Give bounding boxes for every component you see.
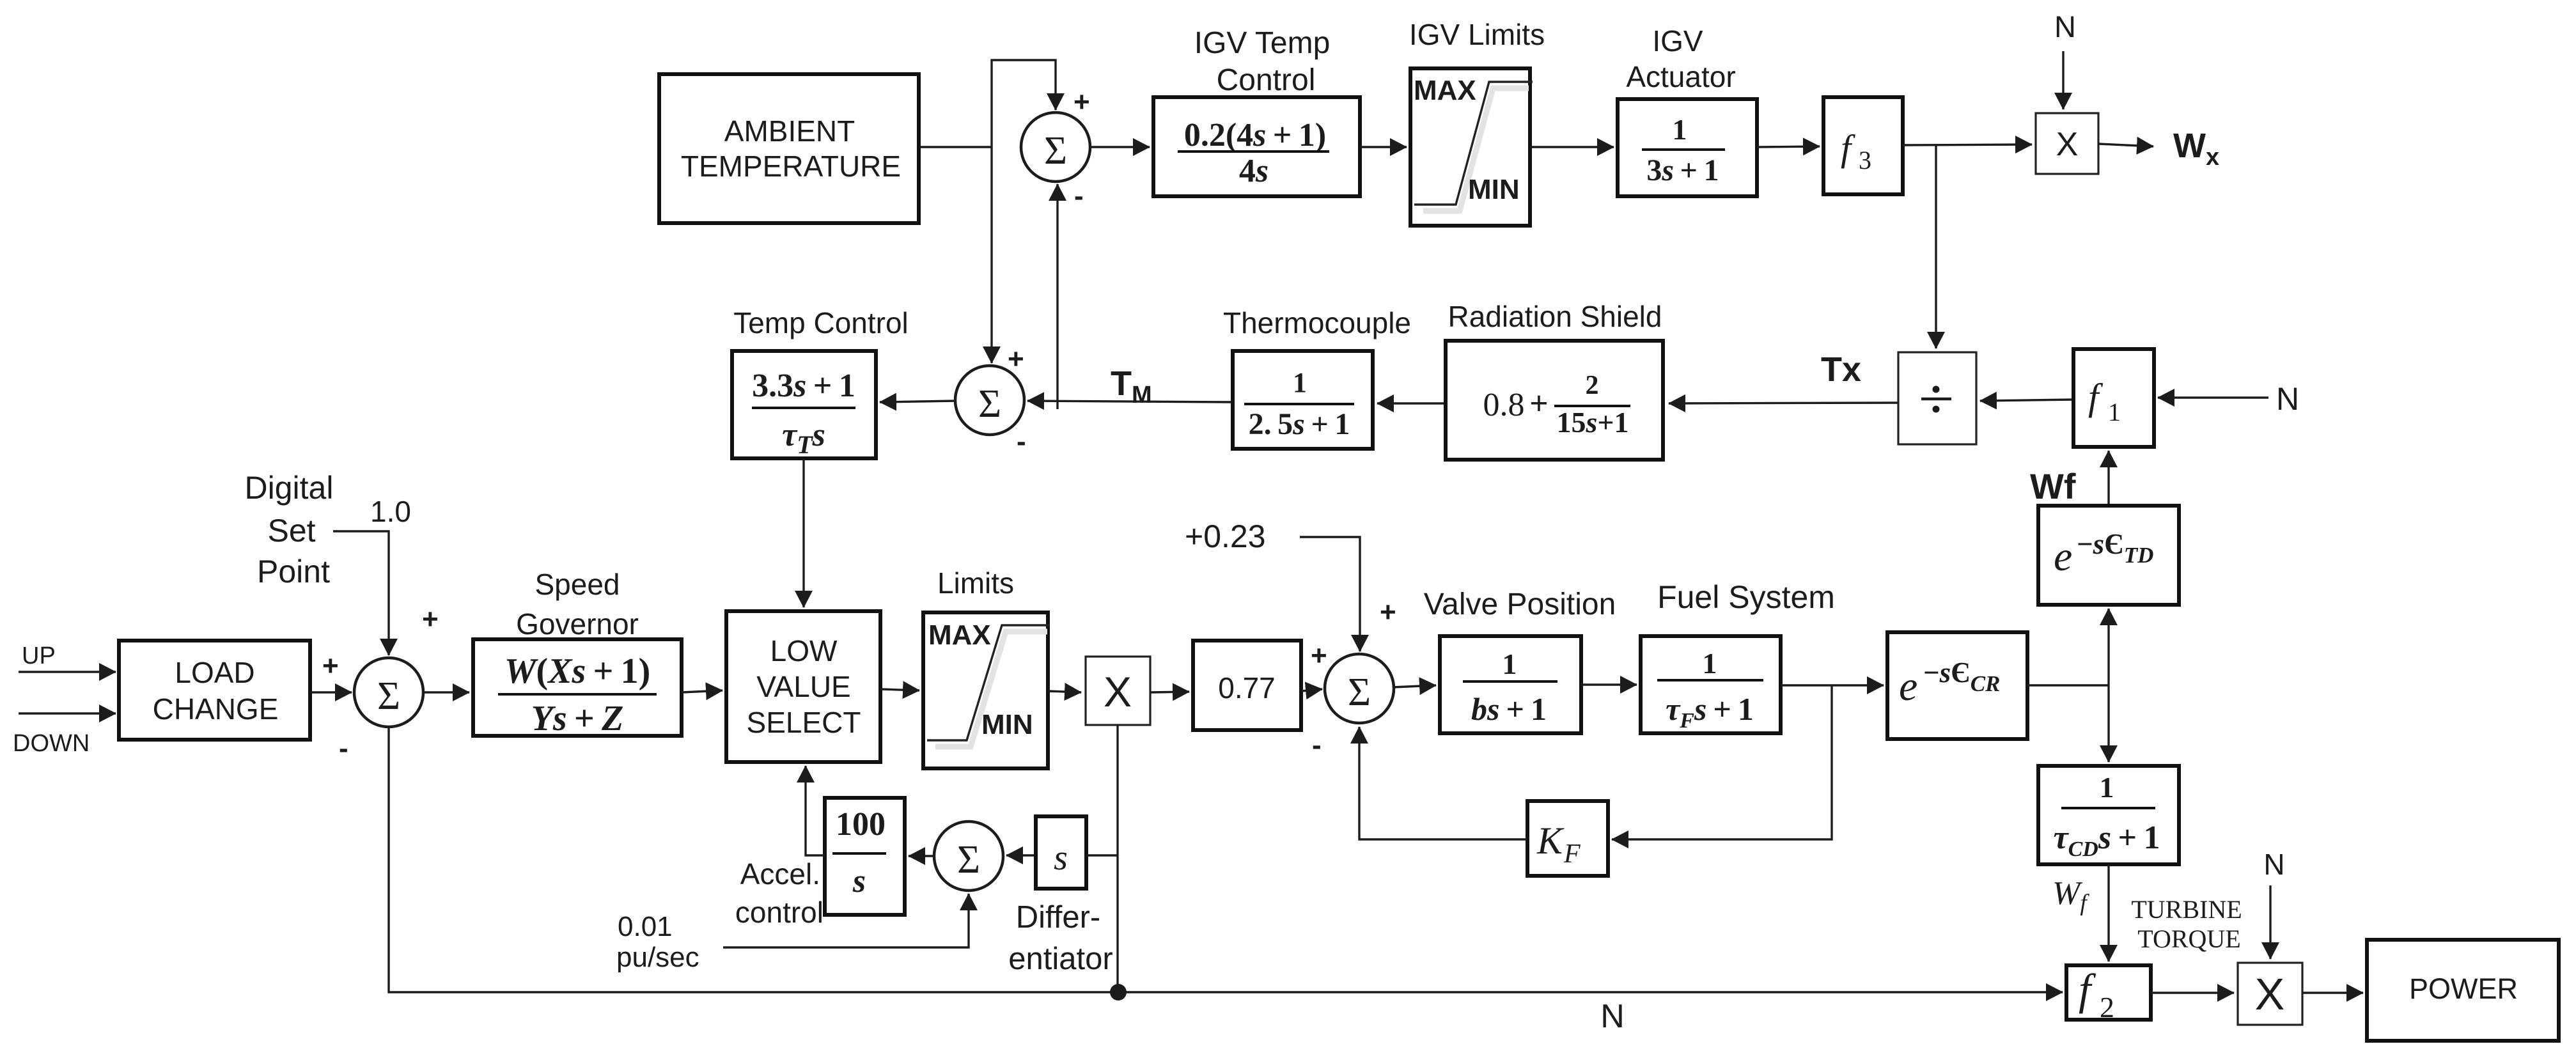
wire KF feedback from node at fuel system output [1612, 685, 1832, 839]
block e^-s CR combustor delay [1887, 632, 2027, 739]
block Speed Governor W(Xs+1)/(Ys+Z) [473, 568, 682, 738]
multiplier X3 [2238, 963, 2302, 1025]
block Valve Position 1/(bs+1) [1424, 588, 1616, 733]
svg-text:-: - [1074, 180, 1084, 212]
wire N down into multiplier X1 [2062, 51, 2064, 109]
svg-text:Σ: Σ [1348, 671, 1371, 714]
svg-text:+: + [1380, 596, 1396, 628]
svg-text:Radiation Shield: Radiation Shield [1448, 300, 1662, 333]
wire e^-s CR to column node [2027, 684, 2109, 686]
wire summer S3 to Speed Governor [422, 691, 469, 693]
svg-text:N: N [1600, 998, 1625, 1035]
summer S3 speed error [339, 658, 423, 764]
svg-text:LOW: LOW [770, 634, 838, 667]
svg-text:MIN: MIN [1468, 174, 1520, 205]
wire 100/s up into LOW VALUE SELECT bottom [806, 766, 825, 855]
wire s differentiator to summer S5 [1006, 854, 1036, 856]
svg-text:Point: Point [257, 554, 330, 589]
wire compressor discharge lag down to f2 with Wf label [2107, 864, 2109, 961]
svg-text:e: e [2054, 533, 2072, 580]
wire summer S5 to 100/s [909, 855, 935, 857]
svg-text:UP: UP [22, 642, 56, 669]
svg-text:+: + [1529, 385, 1549, 422]
wire N down into multiplier X3 [2269, 885, 2271, 959]
wire summer S3 down to speed feedback line N [389, 727, 1111, 992]
block compressor discharge lag 1/(tau_CD s+1) [2038, 766, 2179, 864]
wire Valve Position to Fuel System [1581, 683, 1637, 685]
wire node A down to summer S2 plus input [990, 147, 992, 363]
svg-text:3s + 1: 3s + 1 [1646, 153, 1719, 187]
svg-text:Thermocouple: Thermocouple [1223, 306, 1411, 339]
svg-text:2. 5s + 1: 2. 5s + 1 [1249, 407, 1350, 441]
svg-text:Wf: Wf [2030, 466, 2076, 506]
summer S2 temp control [955, 343, 1026, 457]
wire e^TD up to f1 with Wf label [2107, 451, 2109, 506]
svg-text:TURBINE: TURBINE [2131, 895, 2242, 924]
label TURBINE TORQUE [2131, 895, 2242, 953]
svg-text:2: 2 [2100, 991, 2114, 1024]
svg-text:Σ: Σ [978, 382, 1001, 426]
block Limits saturation [923, 566, 1050, 768]
svg-text:TORQUE: TORQUE [2137, 924, 2240, 953]
svg-text:3.3s + 1: 3.3s + 1 [752, 368, 855, 404]
svg-text:Accel.: Accel. [740, 857, 820, 891]
wire speed line N to f2 [1118, 991, 2063, 993]
block e^-s TD transport delay [2038, 506, 2179, 605]
summer S1 IGV temp [1021, 86, 1090, 212]
block IGV Actuator 1/(3s+1) [1618, 24, 1757, 196]
svg-text:Set: Set [267, 513, 315, 549]
svg-text:Temp Control: Temp Control [733, 306, 909, 339]
block 0.77 [1193, 641, 1301, 730]
wire LOAD CHANGE to summer S3 [310, 691, 352, 693]
block 100/s acceleration control [825, 798, 905, 915]
wire f3 to multiplier X1 with node down to divider [1903, 144, 2032, 145]
label Differ- entiator [1008, 900, 1112, 976]
svg-text:Tx: Tx [1821, 350, 1861, 389]
wire Temp Control down to LOW VALUE SELECT [802, 458, 804, 607]
block Temp Control (3.3s+1)/(tau_T s) [732, 306, 909, 459]
wire N into f1 [2158, 396, 2268, 398]
block POWER [2367, 940, 2559, 1041]
svg-text:MAX: MAX [1414, 75, 1476, 106]
wire multiplier X1 to Wx output [2098, 144, 2153, 146]
svg-text:Speed: Speed [535, 568, 620, 601]
wire f2 to multiplier X3 [2151, 992, 2234, 993]
svg-text:1: 1 [1503, 648, 1517, 680]
block s differentiator [1036, 816, 1086, 889]
svg-text:0.2(4s + 1): 0.2(4s + 1) [1184, 117, 1326, 153]
block Radiation Shield 0.8 + 2/(15s+1) [1446, 300, 1663, 460]
svg-text:pu/sec: pu/sec [616, 942, 699, 973]
svg-text:IGV: IGV [1652, 24, 1703, 58]
svg-text:Σ: Σ [1044, 129, 1067, 173]
wire summer S4 to Valve Position [1393, 685, 1436, 687]
svg-text:1: 1 [1293, 367, 1307, 398]
block AMBIENT TEMPERATURE [659, 74, 919, 223]
svg-text:MIN: MIN [981, 709, 1033, 740]
svg-text:control: control [735, 896, 824, 929]
svg-text:X: X [1104, 668, 1132, 715]
svg-text:AMBIENT: AMBIENT [724, 114, 855, 148]
svg-text:3: 3 [1859, 146, 1871, 175]
svg-text:s: s [852, 863, 866, 899]
svg-text:IGV Temp: IGV Temp [1194, 26, 1331, 60]
block IGV Temp Control 0.2(4s+1)/4s [1153, 26, 1360, 196]
label 0.01 pu/sec [616, 911, 699, 973]
svg-text:+: + [1311, 640, 1327, 671]
svg-text:e: e [1899, 663, 1917, 710]
block IGV Limits saturation [1409, 18, 1545, 226]
wire node A up and over to summer S1 plus input [992, 60, 1056, 147]
svg-text:DOWN: DOWN [13, 730, 90, 757]
svg-text:F: F [1563, 839, 1581, 869]
svg-text:1: 1 [1673, 113, 1687, 146]
svg-text:+: + [422, 603, 439, 635]
wire LOW VALUE SELECT to Limits [880, 689, 919, 690]
wire UP into LOAD CHANGE [19, 671, 116, 673]
wire thermocouple output TM to summer S2 with node up to summer S1 minus [1027, 401, 1232, 402]
svg-text:4s: 4s [1239, 153, 1268, 189]
svg-text:Σ: Σ [957, 838, 980, 882]
svg-text:Actuator: Actuator [1626, 60, 1735, 93]
wire +0.23 into summer S4 top [1300, 537, 1360, 651]
svg-text:1: 1 [2100, 771, 2114, 804]
svg-text:VALUE: VALUE [756, 670, 850, 703]
wire node at f3 output down to divider top [1935, 145, 1937, 348]
svg-text:τFs + 1: τFs + 1 [1666, 691, 1754, 733]
svg-text:100: 100 [836, 806, 886, 843]
svg-text:-: - [339, 733, 348, 764]
wire divider to Radiation Shield with Tx label [1669, 403, 1898, 403]
svg-text:N: N [2263, 848, 2284, 881]
svg-text:CHANGE: CHANGE [153, 692, 279, 726]
svg-text:X: X [2255, 969, 2285, 1019]
wire DOWN into LOAD CHANGE [19, 712, 116, 714]
svg-text:IGV Limits: IGV Limits [1409, 18, 1545, 51]
svg-text:K: K [1536, 820, 1565, 862]
svg-text:Ys + Z: Ys + Z [531, 699, 624, 738]
svg-text:Valve Position: Valve Position [1424, 588, 1616, 621]
wire Limits to multiplier X2 [1048, 691, 1081, 692]
svg-text:0.01: 0.01 [618, 911, 673, 942]
block KF [1527, 801, 1608, 876]
wire multiplier X3 to POWER [2302, 992, 2363, 993]
summer S5 acceleration [934, 821, 1003, 891]
svg-text:+: + [1008, 343, 1024, 375]
svg-text:X: X [2056, 126, 2079, 163]
multiplier X1 [2036, 113, 2098, 174]
svg-text:TEMPERATURE: TEMPERATURE [681, 150, 901, 183]
wire IGV Actuator to f3 [1757, 146, 1820, 147]
wire summer S2 to Temp Control [880, 401, 956, 402]
wire tap from vertical into s differentiator [1086, 854, 1118, 856]
label Digital Set Point [245, 470, 334, 589]
wire Fuel System to e^-s CR with node to KF feedback [1781, 684, 1884, 686]
junction dot on N line [1110, 984, 1127, 1000]
svg-text:0.77: 0.77 [1218, 671, 1276, 705]
block Fuel System 1/(tau_F s+1) [1641, 579, 1835, 733]
wire digital set point 1.0 into summer S3 top [333, 531, 389, 655]
block LOAD CHANGE [119, 641, 310, 740]
svg-text:POWER: POWER [2409, 972, 2518, 1005]
wire multiplier X2 to 0.77 [1150, 692, 1189, 692]
wire Radiation Shield to Thermocouple [1377, 402, 1446, 404]
divider block [1898, 352, 1976, 444]
svg-text:MAX: MAX [928, 619, 991, 651]
svg-text:Limits: Limits [937, 566, 1014, 600]
svg-text:Fuel System: Fuel System [1657, 579, 1835, 615]
block f2 [2066, 965, 2151, 1024]
svg-text:+0.23: +0.23 [1185, 518, 1266, 554]
svg-text:s: s [1054, 838, 1068, 878]
block f1 [2073, 349, 2154, 447]
svg-text:15s+1: 15s+1 [1556, 406, 1628, 439]
svg-text:+: + [1073, 86, 1090, 118]
svg-text:-: - [1017, 426, 1026, 457]
svg-text:Differ-: Differ- [1016, 900, 1101, 935]
wire 0.01 pu/sec rate into summer S5 bottom [723, 894, 969, 947]
svg-text:1: 1 [2108, 398, 2121, 426]
block f3 [1823, 97, 1903, 194]
wire KF to summer S4 minus input [1359, 727, 1527, 839]
svg-text:Σ: Σ [377, 674, 400, 718]
wire node TM up to summer S1 minus input [1056, 184, 1058, 409]
wire summer S1 to IGV Temp Control [1089, 146, 1150, 148]
svg-text:LOAD: LOAD [175, 656, 254, 689]
wire ambient temperature output to node A [920, 146, 992, 148]
multiplier X2 [1086, 657, 1150, 725]
wire from N line junction up to multiplier X2 bottom and tap to s [1116, 725, 1118, 992]
svg-text:SELECT: SELECT [747, 706, 861, 739]
svg-text:Governor: Governor [516, 607, 639, 641]
svg-text:2: 2 [1586, 371, 1599, 400]
summer S4 valve position [1312, 654, 1394, 761]
svg-text:N: N [2276, 381, 2299, 417]
wire IGV Temp Control to IGV Limits [1360, 146, 1407, 148]
svg-text:+: + [322, 650, 339, 681]
svg-text:N: N [2054, 10, 2076, 43]
svg-text:entiator: entiator [1008, 942, 1112, 976]
wire f1 to divider [1980, 400, 2073, 401]
label Accel. control [735, 857, 824, 929]
block LOW VALUE SELECT [726, 611, 880, 762]
svg-text:Control: Control [1217, 63, 1316, 97]
svg-text:-: - [1312, 729, 1322, 761]
svg-text:1.0: 1.0 [370, 495, 411, 528]
svg-text:1: 1 [1703, 647, 1717, 680]
wire column node up to e^-s TD [2107, 609, 2109, 685]
svg-text:W(Xs + 1): W(Xs + 1) [504, 651, 651, 691]
svg-text:bs + 1: bs + 1 [1471, 691, 1547, 727]
svg-text:Digital: Digital [245, 470, 334, 506]
block Thermocouple 1/(2.5s+1) [1223, 306, 1411, 449]
wire column node down to compressor discharge lag [2107, 685, 2109, 762]
svg-text:0.8: 0.8 [1483, 387, 1525, 423]
wire IGV Limits to IGV Actuator [1530, 146, 1614, 148]
wire Speed Governor to LOW VALUE SELECT [682, 690, 722, 692]
wire 0.77 to summer S4 [1301, 689, 1322, 691]
